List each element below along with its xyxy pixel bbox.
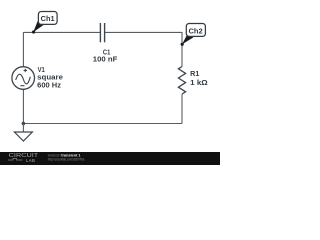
wire top left segment bbox=[23, 31, 100, 33]
svg-text:square: square bbox=[37, 74, 63, 81]
Ch2 probe pointer bbox=[182, 34, 193, 45]
Ch1 probe pointer bbox=[33, 21, 44, 32]
resistor R1 zigzag bbox=[178, 67, 185, 95]
wire top right segment bbox=[105, 31, 182, 33]
svg-text:1 kΩ: 1 kΩ bbox=[190, 80, 208, 87]
svg-text:LAB: LAB bbox=[26, 158, 35, 163]
svg-text:Ch1: Ch1 bbox=[41, 14, 56, 23]
ground symbol bbox=[14, 132, 32, 141]
svg-text:C1: C1 bbox=[103, 50, 110, 57]
wire left branch lower bbox=[22, 89, 24, 123]
svg-text:R1: R1 bbox=[190, 71, 199, 78]
footer CircuitLab logo waveform bbox=[8, 158, 23, 160]
svg-text:Ch2: Ch2 bbox=[189, 27, 203, 36]
svg-text:V1: V1 bbox=[38, 67, 45, 74]
junction dot bbox=[22, 122, 26, 126]
svg-text:100 nF: 100 nF bbox=[93, 57, 118, 64]
footer bar bbox=[0, 152, 220, 165]
svg-text:http://circuitlab.com/c8677fka: http://circuitlab.com/c8677fka bbox=[48, 158, 85, 162]
svg-text:600 Hz: 600 Hz bbox=[37, 83, 61, 90]
Ch2 flag box bbox=[186, 24, 205, 37]
wire bottom segment bbox=[23, 123, 182, 125]
capacitor C1 plates bbox=[100, 23, 104, 42]
wire right branch upper bbox=[181, 32, 183, 67]
voltage source V1 bbox=[12, 67, 35, 90]
wire right branch lower bbox=[181, 94, 183, 123]
ground stub wire bbox=[22, 124, 24, 133]
Ch1 flag box bbox=[38, 12, 57, 25]
wire left branch upper bbox=[22, 32, 24, 67]
